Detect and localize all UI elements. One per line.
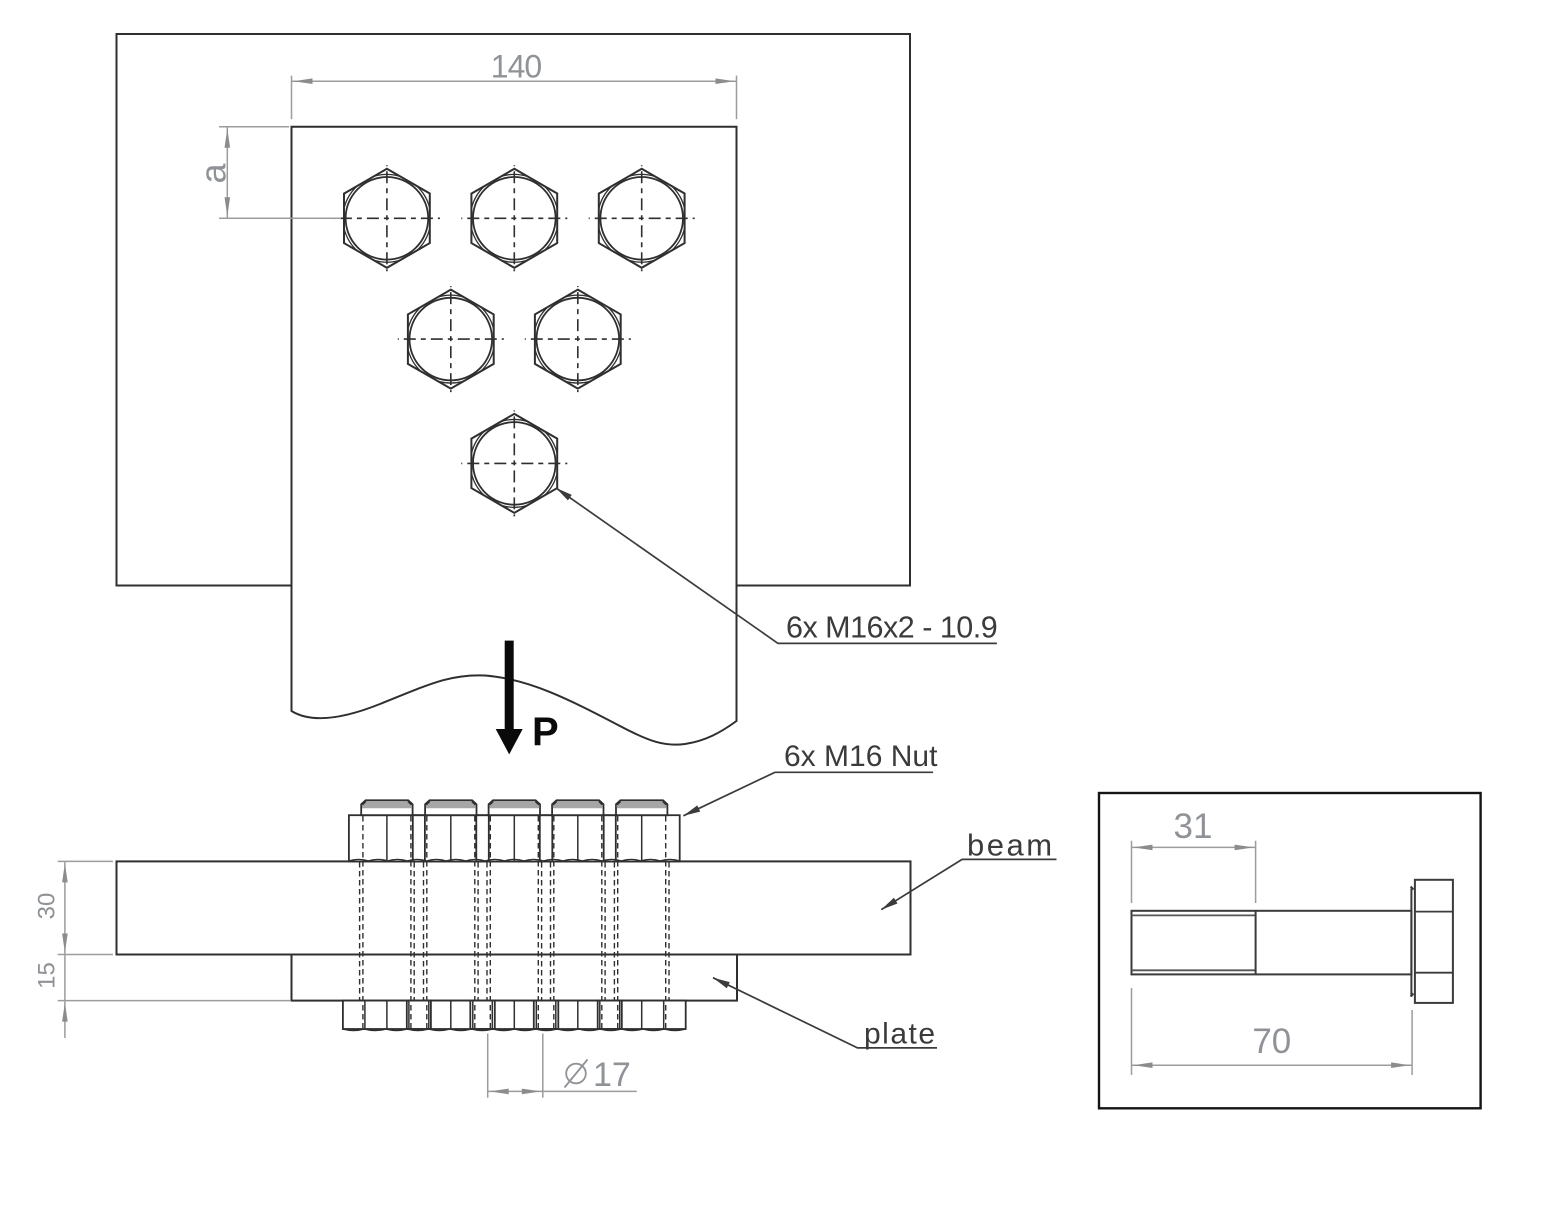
bolt thread stub above nut 5 <box>616 800 667 815</box>
svg-text:70: 70 <box>1252 1022 1291 1061</box>
bolt (detail view): shank <box>1132 911 1412 975</box>
dimension 70 (bolt length) <box>1132 988 1413 1075</box>
bolt thread stub above nut 2 <box>425 800 476 815</box>
beam (side view) <box>117 861 911 954</box>
dimension 31 (thread length) <box>1132 807 1256 903</box>
svg-text:15: 15 <box>33 962 60 989</box>
bolt B1 head (top view) <box>334 165 440 271</box>
leader and label: 6x M16 Nut <box>683 740 938 816</box>
bolt B5 head (top view) <box>525 286 631 392</box>
bolt B2 head (top view) <box>461 165 567 271</box>
svg-text:6x M16x2 - 10.9: 6x M16x2 - 10.9 <box>786 611 997 645</box>
dimension a (edge distance) <box>193 127 341 219</box>
svg-text:17: 17 <box>593 1056 631 1094</box>
force arrow P <box>496 641 559 755</box>
nuts N1-N5 (side view): outlines, corner edges and chamfer scallops <box>349 815 680 861</box>
svg-text:31: 31 <box>1174 807 1213 846</box>
dimension 15 (plate thickness) <box>33 955 290 1039</box>
detail view border box <box>1099 793 1481 1108</box>
leader and label: plate <box>713 978 937 1051</box>
svg-text:140: 140 <box>491 49 542 85</box>
bolt B4 head (top view) <box>398 286 504 392</box>
bolt heads H1-H5 under plate (side view): white bodies <box>343 1001 686 1029</box>
leader and label: beam <box>881 828 1056 910</box>
hidden lines: bolt shanks (dia 16) and holes (dia 17), side view <box>360 816 669 1028</box>
plate (top view, with break wave) <box>292 127 737 745</box>
svg-text:a: a <box>193 163 234 184</box>
svg-text:plate: plate <box>864 1018 937 1051</box>
plate (side view) <box>292 955 738 1001</box>
bolt thread stub above nut 1 <box>361 800 412 815</box>
beam (top view) <box>117 34 911 586</box>
bolt heads H1-H5 (side view): outlines, facet edges and chamfer scallops <box>343 1001 686 1031</box>
leader and label: 6x M16x2 - 10.9 <box>556 488 997 645</box>
bolt thread stub above nut 4 <box>552 800 603 815</box>
bolt B3 head (top view) <box>589 165 695 271</box>
svg-text:6x M16 Nut: 6x M16 Nut <box>784 740 938 773</box>
bolt (detail view): thread minor-diameter lines and runout <box>1132 911 1256 975</box>
bolt thread stub above nut 3 <box>489 800 540 815</box>
dimension 140 (plate width) <box>292 49 737 120</box>
svg-text:beam: beam <box>967 828 1055 863</box>
svg-text:30: 30 <box>33 893 60 920</box>
nuts N1-N5 on top of beam (side view): white bodies <box>349 815 680 861</box>
dimension 30 (beam thickness) <box>33 861 113 954</box>
bolt B6 head (top view) <box>461 410 567 516</box>
dimension &#8960;17 (hole diameter) <box>488 1034 637 1098</box>
svg-text:P: P <box>532 710 559 754</box>
bolt (detail view): hex head <box>1411 880 1453 1003</box>
